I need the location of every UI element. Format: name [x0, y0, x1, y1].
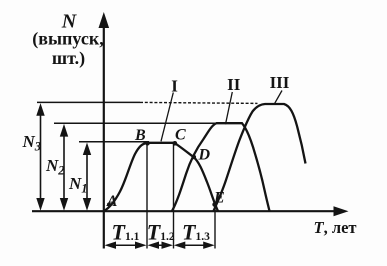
svg-text:(выпуск,: (выпуск, — [32, 29, 103, 50]
svg-text:N1: N1 — [68, 174, 88, 196]
svg-text:I: I — [171, 77, 178, 96]
curve II — [172, 123, 270, 211]
svg-text:T1.1: T1.1 — [112, 219, 140, 244]
vertical from C — [173, 144, 175, 249]
x-axis — [32, 206, 349, 216]
point B — [145, 141, 150, 146]
svg-text:T, лет: T, лет — [314, 218, 357, 237]
level line N1 — [79, 141, 149, 143]
svg-text:шт.): шт.) — [52, 48, 85, 69]
svg-text:E: E — [213, 190, 225, 207]
svg-text:A: A — [106, 193, 117, 210]
T interval arrows: span 2 — [148, 242, 174, 249]
level line N3 — [37, 101, 140, 103]
vertical from E — [214, 205, 216, 249]
svg-text:B: B — [134, 127, 146, 144]
T interval arrows: span 1 — [105, 242, 147, 249]
svg-text:T1.3: T1.3 — [182, 219, 210, 244]
y-axis label N (vypusk, sht.) — [32, 11, 103, 70]
curve III — [214, 104, 306, 211]
measure arrow N1 — [83, 143, 91, 211]
point A — [107, 203, 111, 207]
svg-text:N2: N2 — [45, 156, 65, 178]
svg-text:III: III — [270, 73, 290, 92]
T interval arrows: span 3 — [174, 242, 215, 249]
curve I — [104, 143, 218, 211]
leader line II — [226, 92, 233, 124]
y-axis — [99, 12, 110, 249]
leader line I — [161, 93, 173, 142]
svg-text:N3: N3 — [22, 132, 42, 154]
svg-text:II: II — [227, 75, 241, 94]
svg-text:D: D — [198, 146, 211, 163]
leader line III — [275, 91, 283, 104]
svg-text:T1.2: T1.2 — [147, 219, 175, 244]
vertical from B — [146, 144, 148, 249]
svg-text:C: C — [175, 127, 186, 144]
level line N2 — [54, 122, 219, 124]
measure arrow N3 — [36, 103, 44, 211]
measure arrow N2 — [60, 124, 68, 211]
point E — [212, 202, 217, 207]
point D — [192, 155, 197, 160]
point C — [173, 141, 178, 146]
